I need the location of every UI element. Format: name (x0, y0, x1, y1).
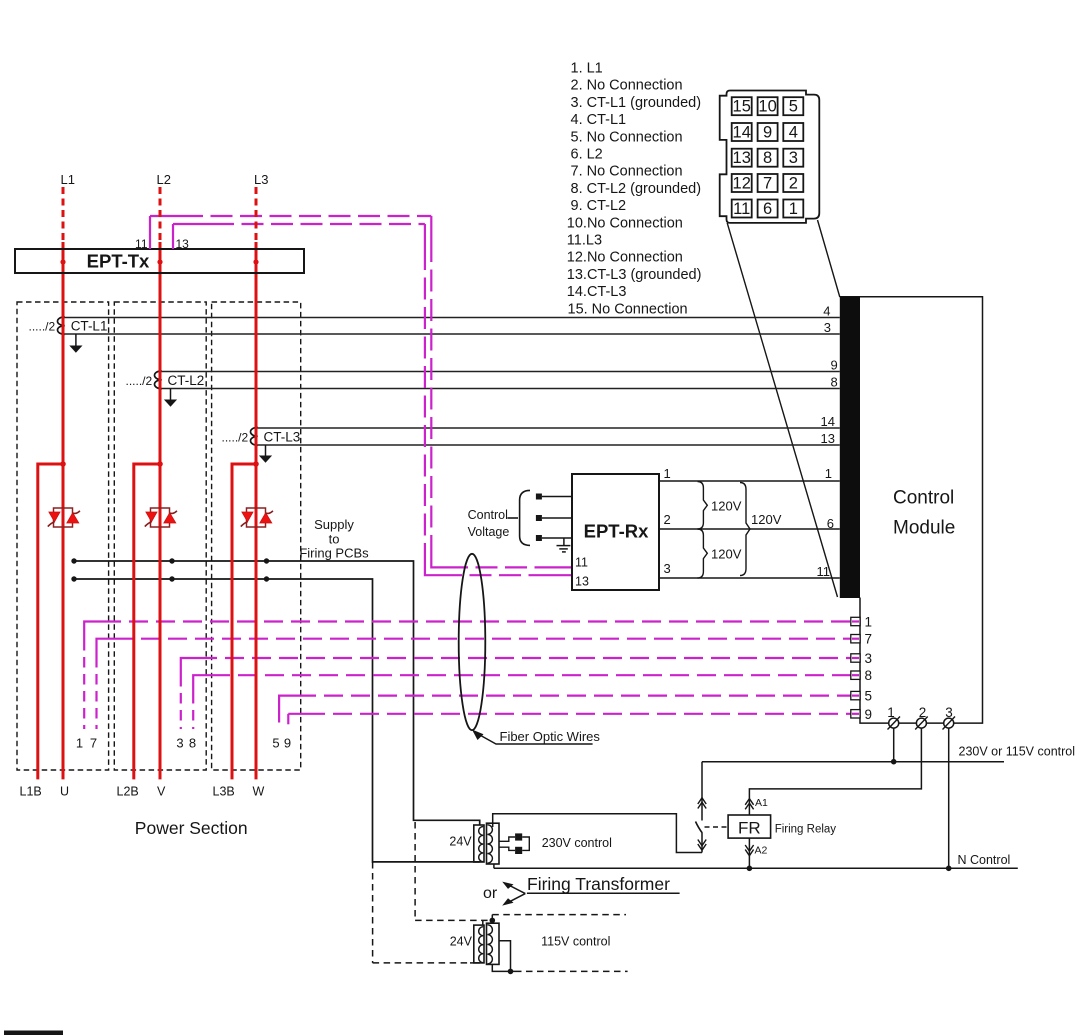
svg-text:9: 9 (284, 736, 291, 751)
svg-text:FR: FR (738, 819, 761, 838)
SCR pair Q3 (241, 508, 273, 527)
svg-text:9: 9 (830, 358, 837, 373)
junction dot A2/N (747, 866, 753, 872)
CT dashed enclosure box 1 (17, 302, 109, 770)
relay coil A2 wire (748, 838, 750, 868)
svg-text:8: 8 (189, 736, 196, 751)
FR contact blade (696, 822, 703, 834)
svg-text:9: 9 (763, 123, 772, 141)
EPT-Tx box (15, 249, 304, 273)
svg-text:7. No Connection: 7. No Connection (571, 164, 683, 180)
relay coil A1 chevrons (745, 799, 753, 810)
svg-text:L1: L1 (61, 172, 75, 187)
transformer T2 secondary box (487, 923, 500, 964)
transformer T2 primary box (474, 925, 484, 963)
svg-text:13: 13 (821, 431, 835, 446)
230V or 115V control line (702, 761, 1004, 763)
module bottom terminal 2 (915, 717, 928, 730)
svg-text:1: 1 (789, 200, 798, 218)
120V brace lower (698, 529, 708, 578)
transformer T1 secondary winding (487, 825, 492, 863)
fiber optic bundle wire 1 (84, 622, 851, 730)
svg-text:L3B: L3B (213, 785, 235, 799)
svg-text:2: 2 (789, 174, 798, 192)
svg-text:Firing PCBs: Firing PCBs (299, 546, 369, 561)
control module U3 outline (840, 297, 983, 723)
svg-text:115V control: 115V control (541, 935, 610, 949)
T2 secondary bottom stub (492, 964, 515, 971)
svg-text:1: 1 (664, 466, 671, 481)
EPT-Tx tap dot L3 (253, 259, 258, 264)
dashed alternative supply to T2 bottom (373, 862, 480, 963)
svg-text:11: 11 (575, 556, 588, 570)
fiber optic bundle wire 7 (97, 639, 851, 729)
svg-text:Supply: Supply (314, 517, 354, 532)
phase L1 conductor (62, 242, 65, 779)
svg-text:3: 3 (664, 561, 671, 576)
control voltage label (468, 508, 510, 539)
EPT-Rx output wire 3 (659, 577, 840, 579)
CT-L2 winding (155, 371, 162, 389)
CT dashed enclosure box 3 (212, 302, 301, 770)
svg-text:13.CT-L3 (grounded): 13.CT-L3 (grounded) (567, 267, 702, 283)
svg-text:Voltage: Voltage (468, 525, 510, 539)
FR contact lower chevrons (698, 840, 706, 851)
svg-text:9. CT-L2: 9. CT-L2 (571, 198, 627, 214)
firing transformer underline (527, 892, 680, 894)
transformer T1 secondary box (487, 823, 500, 864)
EPT-Rx output wire 1 (659, 480, 840, 482)
page footer rule fragment (4, 1031, 63, 1035)
svg-text:120V: 120V (751, 512, 782, 527)
svg-text:8. CT-L2 (grounded): 8. CT-L2 (grounded) (571, 181, 702, 197)
svg-text:6: 6 (763, 200, 772, 218)
svg-text:L1B: L1B (20, 785, 42, 799)
bypass junction L3 (253, 461, 259, 467)
EPT-Tx tap dot L2 (157, 259, 162, 264)
svg-text:13: 13 (176, 237, 190, 251)
svg-text:EPT-Tx: EPT-Tx (87, 251, 150, 272)
junction dot terminal1/control line (891, 759, 897, 765)
wire connector left leader (727, 223, 837, 597)
wire terminal 2 to relay coil A1 (749, 728, 921, 815)
control module label (893, 488, 955, 539)
FR contact switch upper wire (701, 762, 703, 821)
svg-text:13: 13 (575, 575, 589, 589)
fiber optic bundle ellipse (459, 554, 486, 730)
module fiber terminal 1 (851, 617, 860, 625)
svg-text:2. No Connection: 2. No Connection (571, 78, 683, 94)
phase L3 incoming dashed (255, 187, 258, 242)
control voltage input pin 2 (536, 515, 572, 521)
wire terminal 3 to N (948, 728, 950, 868)
svg-text:U: U (60, 785, 69, 799)
connector J1 pin cells (732, 97, 804, 217)
svg-text:120V: 120V (711, 499, 742, 514)
svg-text:8: 8 (763, 149, 772, 167)
phase L2 conductor (159, 242, 162, 779)
T2 junction dot bottom (508, 969, 514, 975)
wire terminal 1 drop (893, 728, 895, 762)
svg-text:5. No Connection: 5. No Connection (571, 129, 683, 145)
CT-L1 winding (57, 317, 64, 335)
115V control top dashed line (492, 914, 626, 916)
svg-text:6. L2: 6. L2 (571, 147, 603, 163)
svg-text:1: 1 (825, 466, 832, 481)
fiber optic bundle wire 9 (288, 714, 851, 729)
svg-text:12.No Connection: 12.No Connection (567, 250, 683, 266)
svg-text:11: 11 (135, 237, 148, 251)
svg-text:9: 9 (865, 707, 873, 722)
120V brace upper (698, 482, 708, 530)
module fiber terminal 7 (851, 635, 860, 643)
module fiber terminal 3 (851, 654, 860, 662)
phase L1 incoming dashed (62, 187, 65, 242)
svg-text:4: 4 (789, 123, 798, 141)
SCR pair Q1 (48, 508, 80, 527)
fiber optic label leader (472, 730, 593, 745)
phase L3 conductor (255, 242, 258, 779)
transformer T2 primary winding (479, 927, 484, 963)
svg-text:14: 14 (821, 414, 835, 429)
svg-text:7: 7 (763, 174, 772, 192)
230V control connector square 1 (515, 833, 522, 840)
FR link dashed (705, 826, 728, 828)
svg-text:Power Section: Power Section (135, 818, 248, 838)
svg-text:Module: Module (893, 518, 955, 539)
svg-text:A1: A1 (755, 797, 768, 809)
connector J1 pin numbers (733, 98, 798, 218)
svg-text:2: 2 (664, 512, 671, 527)
svg-text:13: 13 (733, 149, 751, 167)
svg-text:1: 1 (887, 705, 895, 720)
CT dashed enclosure box 2 (114, 302, 206, 770)
alternative arrow (507, 884, 525, 903)
svg-text:A2: A2 (755, 845, 768, 857)
svg-text:Control: Control (893, 488, 954, 509)
svg-text:12: 12 (733, 174, 751, 192)
svg-text:V: V (157, 785, 166, 799)
115V control bottom dashed line (515, 970, 628, 972)
230V control connector square 2 (515, 847, 522, 854)
svg-text:1: 1 (865, 615, 873, 630)
230V control connector loop (499, 837, 529, 850)
module bottom terminal 3 (943, 717, 956, 730)
svg-text:11: 11 (733, 200, 750, 218)
svg-text:CT-L1: CT-L1 (71, 319, 108, 334)
svg-text:1. L1: 1. L1 (571, 61, 603, 77)
module fiber terminal 9 (851, 710, 860, 718)
svg-text:Firing Relay: Firing Relay (775, 824, 837, 836)
module bottom terminal 1 (888, 717, 901, 730)
svg-text:1: 1 (76, 736, 83, 751)
svg-text:3. CT-L1 (grounded): 3. CT-L1 (grounded) (571, 95, 702, 111)
CT-L3 winding (251, 427, 258, 445)
junction dot terminal3/N (946, 866, 952, 872)
svg-text:8: 8 (865, 668, 873, 683)
svg-text:14.CT-L3: 14.CT-L3 (567, 284, 627, 300)
N control line (494, 867, 1018, 869)
svg-text:3: 3 (824, 320, 831, 335)
svg-text:4: 4 (823, 304, 830, 319)
svg-text:24V: 24V (450, 935, 473, 949)
T2 tap wire (499, 941, 511, 972)
CT-L1 wire pair to module pins 4/3 (64, 318, 840, 335)
wire connector right leader (818, 220, 840, 297)
svg-text:3: 3 (789, 149, 798, 167)
transformer T1 secondary bottom stub to N (493, 864, 495, 868)
EPT-Rx output wire 2 (659, 528, 840, 530)
CT-L1 ground (69, 334, 82, 353)
svg-text:CT-L3: CT-L3 (264, 430, 301, 445)
fiber optic bundle wire 8 (193, 675, 851, 729)
FR contact lower wire (701, 833, 703, 853)
FR contact upper chevrons (698, 798, 706, 809)
T2 junction dot top (490, 918, 496, 924)
svg-text:EPT-Rx: EPT-Rx (584, 521, 649, 542)
fiber optic link wire 13 (EPT-Tx to EPT-Rx) (173, 224, 572, 575)
module fiber terminal 8 (851, 671, 860, 679)
svg-text:5: 5 (789, 98, 798, 116)
svg-text:10: 10 (758, 98, 776, 116)
svg-text:15. No Connection: 15. No Connection (568, 301, 688, 317)
bypass wire L1B (38, 464, 63, 779)
svg-text:5: 5 (865, 689, 873, 704)
svg-text:2: 2 (919, 705, 927, 720)
dashed alternative supply to T2 top (415, 822, 488, 925)
120V brace full (740, 483, 750, 576)
svg-text:3: 3 (176, 736, 183, 751)
pin assignment list (567, 61, 702, 318)
svg-text:Fiber Optic Wires: Fiber Optic Wires (500, 729, 601, 744)
svg-text:11: 11 (817, 564, 831, 579)
svg-text:5: 5 (272, 736, 279, 751)
wire switch to transformer secondary (493, 814, 702, 853)
svg-text:3: 3 (865, 651, 873, 666)
bypass junction L1 (60, 461, 66, 467)
svg-text:L2B: L2B (117, 785, 139, 799)
EPT-Rx box (572, 474, 659, 590)
control voltage brace (507, 490, 530, 545)
svg-text:11.L3: 11.L3 (567, 233, 602, 249)
fiber optic bundle wire 3 (181, 658, 851, 729)
svg-text:Control: Control (468, 508, 508, 522)
svg-text:Firing Transformer: Firing Transformer (527, 874, 670, 894)
svg-text:24V: 24V (449, 835, 472, 849)
control module black connector bar (840, 297, 860, 598)
svg-text:230V or 115V control: 230V or 115V control (959, 745, 1076, 759)
control voltage input pin 3 (536, 535, 572, 541)
svg-text:...../2: ...../2 (29, 320, 56, 334)
supply line 1 to firing PCBs (74, 561, 480, 825)
bypass wire L3B (232, 464, 256, 779)
svg-text:3: 3 (945, 705, 953, 720)
CT-L3 wire pair to module pins 14/13 (257, 428, 840, 445)
CT-L2 ground (164, 389, 177, 407)
svg-text:120V: 120V (711, 547, 742, 562)
T2 secondary top stub (491, 915, 493, 924)
supply line 2 junction dots (71, 576, 269, 581)
svg-text:14: 14 (733, 123, 751, 141)
EPT-Tx tap dot L1 (60, 259, 65, 264)
CT-L3 ground (259, 445, 272, 463)
svg-text:L3: L3 (254, 172, 268, 187)
connector J1 (15-pin plug) (720, 91, 820, 223)
EPT-Tx pin 11 stub (149, 216, 151, 249)
signal ground (557, 538, 571, 552)
firing relay FR box (728, 815, 771, 838)
control voltage input pin 1 (536, 494, 572, 500)
svg-text:...../2: ...../2 (126, 374, 153, 388)
svg-text:8: 8 (830, 375, 837, 390)
svg-text:7: 7 (90, 736, 97, 751)
supply line 1 junction dots (71, 558, 269, 563)
supply label (299, 517, 369, 561)
transformer T1 primary winding (479, 826, 484, 861)
svg-text:L2: L2 (157, 172, 171, 187)
svg-text:15: 15 (733, 98, 751, 116)
SCR pair Q2 (145, 508, 177, 527)
svg-text:4. CT-L1: 4. CT-L1 (571, 112, 627, 128)
fiber optic bundle wire 5 (279, 696, 851, 729)
transformer T1 primary box (474, 825, 484, 862)
module fiber terminal 5 (851, 691, 860, 699)
svg-text:N Control: N Control (958, 853, 1011, 867)
svg-text:CT-L2: CT-L2 (168, 373, 205, 388)
bypass wire L2B (134, 464, 160, 779)
transformer T2 secondary winding (487, 925, 492, 964)
phase L2 incoming dashed (159, 187, 162, 242)
supply line 2 to firing PCBs (74, 579, 480, 862)
CT-L2 wire pair to module pins 9/8 (161, 372, 840, 389)
EPT-Tx pin 13 stub (172, 224, 174, 249)
svg-text:7: 7 (865, 632, 873, 647)
svg-text:...../2: ...../2 (222, 431, 249, 445)
bypass junction L2 (157, 461, 163, 467)
relay coil A2 chevrons (745, 845, 753, 856)
svg-text:or: or (483, 885, 498, 902)
svg-text:to: to (329, 532, 340, 547)
svg-text:10.No Connection: 10.No Connection (567, 215, 683, 231)
fiber optic link wire 11 (EPT-Tx to EPT-Rx) (150, 216, 572, 567)
svg-text:W: W (253, 785, 265, 799)
svg-text:230V control: 230V control (542, 836, 612, 850)
